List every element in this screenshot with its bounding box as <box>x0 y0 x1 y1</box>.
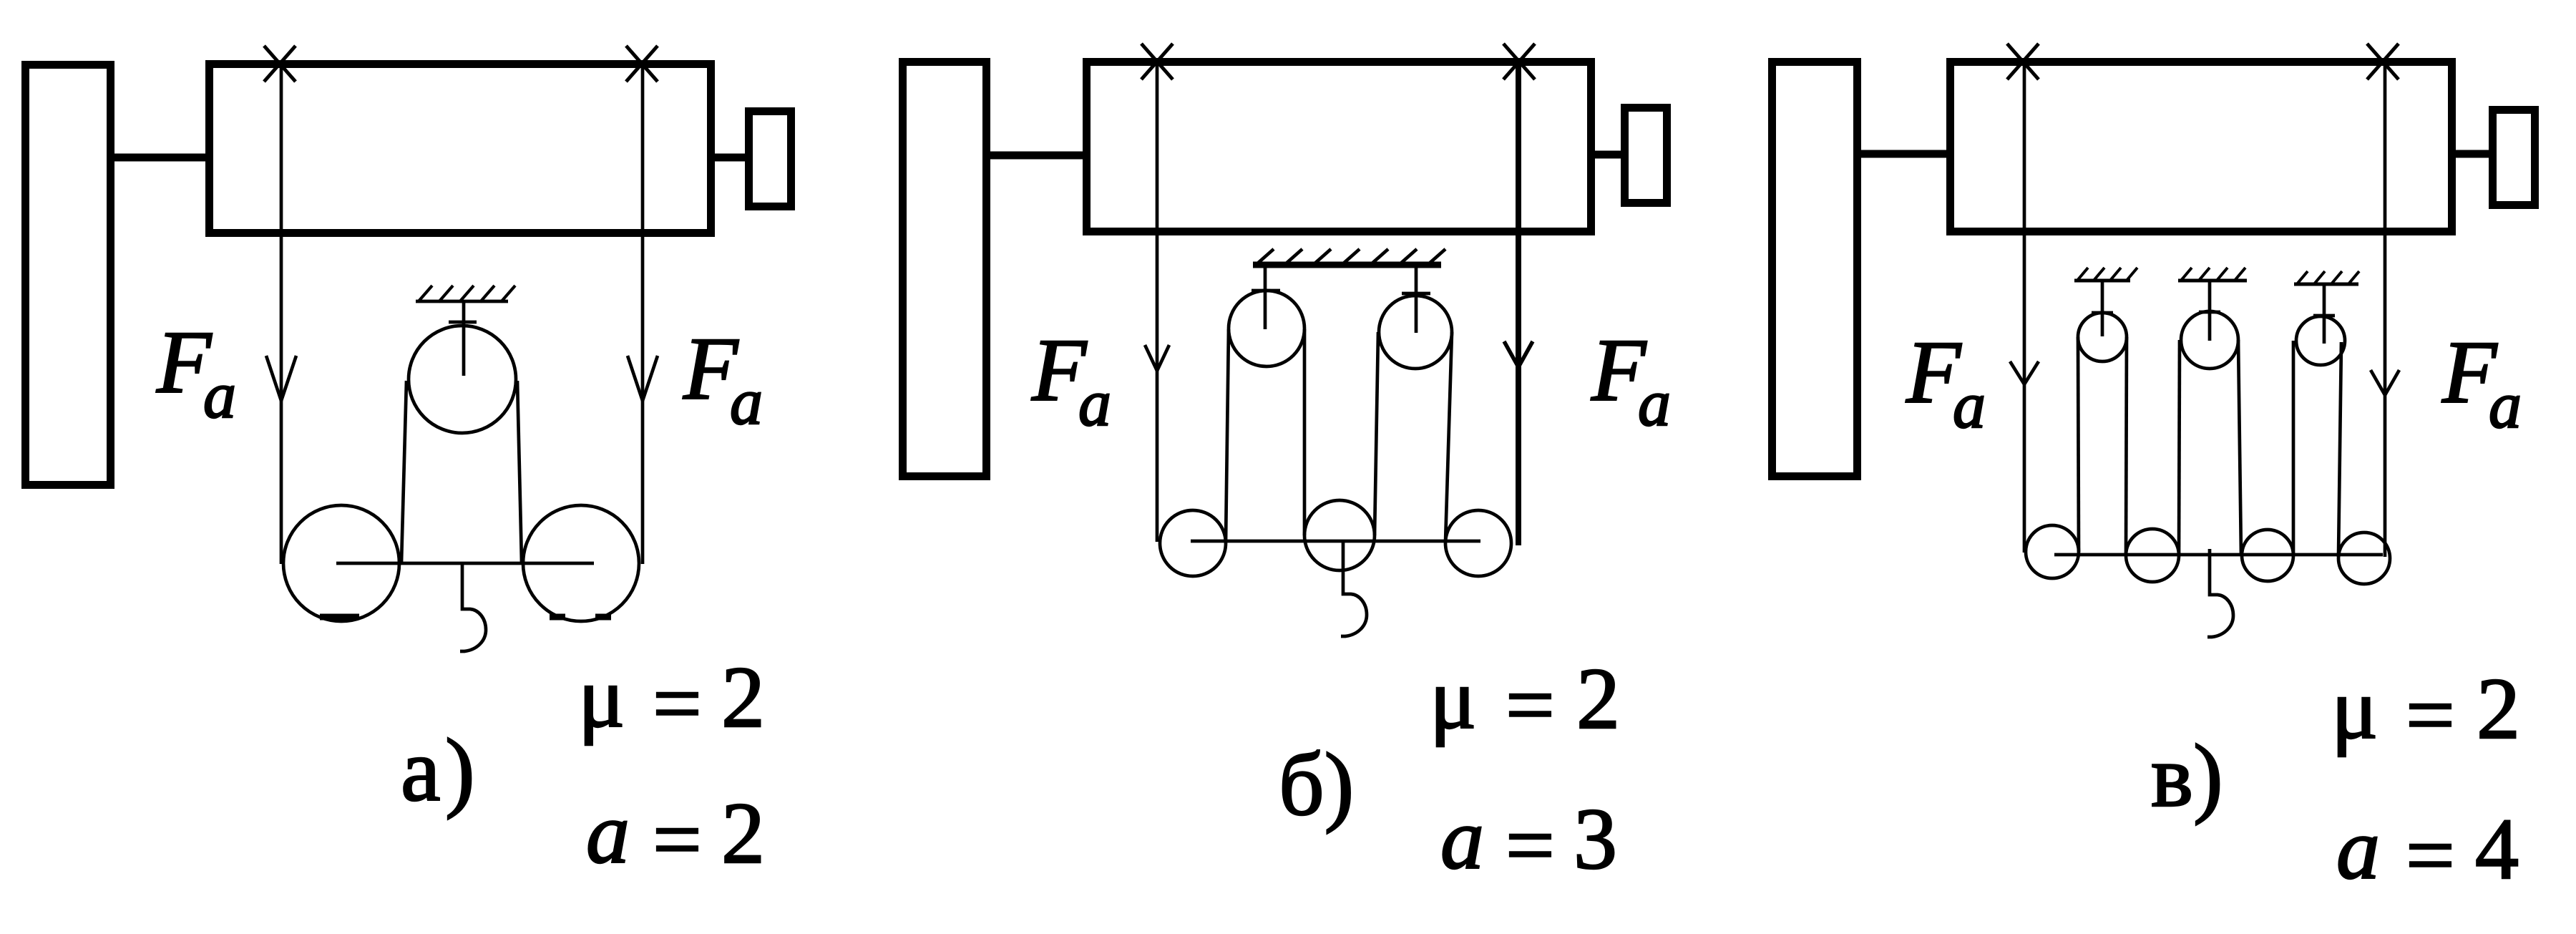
section b: upper pulley hanger right <box>1415 265 1418 333</box>
section v: axle bar 1 <box>2092 311 2113 315</box>
section b: drum axle right <box>1591 151 1624 159</box>
section b: upper pulley left <box>1229 291 1304 366</box>
section a: rope right arrowhead <box>628 356 658 401</box>
section v: rope fall 6 <box>2338 342 2341 557</box>
svg-text:μ: μ <box>2331 661 2378 757</box>
section b: rope anchor X left <box>1141 44 1173 79</box>
section v: ceiling hatch mount 1 <box>2074 268 2137 281</box>
section a: drum axle left <box>111 154 209 162</box>
svg-text:4: 4 <box>2475 801 2519 897</box>
section b: bearing block right <box>1625 108 1667 203</box>
section v: support wall <box>1772 62 1858 477</box>
section v: ceiling hatch mount 3 <box>2294 271 2359 285</box>
section b: drum axle left <box>983 152 1086 160</box>
section a: rope anchor X right <box>626 46 658 82</box>
section v: hanger 1 <box>2101 281 2104 336</box>
svg-text:a: a <box>203 359 236 432</box>
svg-text:a: a <box>730 365 763 438</box>
svg-text:а: а <box>401 721 440 820</box>
section b: support wall <box>903 62 987 477</box>
section a: bearing block right <box>749 112 791 207</box>
svg-text:a: a <box>2489 369 2522 442</box>
svg-text:=: = <box>2406 667 2455 764</box>
section v: rope fall 5 <box>2292 341 2296 555</box>
section b: rope right (thick) <box>1516 65 1521 545</box>
section v: rope anchor X right <box>2367 44 2399 79</box>
section b: winch drum <box>1087 62 1591 232</box>
section b: upper pulley right <box>1379 296 1452 369</box>
section v: rope right arrowhead <box>2371 370 2399 395</box>
section a: rope right <box>641 67 645 564</box>
svg-text:в): в) <box>2151 727 2223 826</box>
section a: lower pulley right <box>523 505 639 621</box>
section a: ceiling hatch <box>416 286 515 302</box>
section v: rope left arrowhead <box>2010 361 2039 384</box>
section b: upper pulley hanger left <box>1264 265 1267 329</box>
section b: upper pulley axle bar left <box>1252 289 1280 293</box>
svg-text:=: = <box>653 792 702 888</box>
section b: upper pulley axle bar right <box>1402 292 1430 296</box>
section a: rope end mark left <box>320 614 359 621</box>
svg-text:a: a <box>1638 366 1671 439</box>
section b: load hook <box>1341 542 1367 636</box>
section b: ceiling hatch <box>1253 249 1445 266</box>
svg-text:2: 2 <box>721 785 765 882</box>
section v: drum axle right <box>2451 150 2492 158</box>
section b: rope fall 3 <box>1375 332 1378 535</box>
section v: upper pulley 1 <box>2078 313 2127 361</box>
section a: winch drum <box>210 64 711 233</box>
svg-text:=: = <box>1506 657 1555 754</box>
section b: rope fall 4 <box>1445 332 1452 543</box>
svg-text:μ: μ <box>578 649 625 746</box>
section v: hanger 2 <box>2208 281 2212 341</box>
section b: rope anchor X right <box>1503 44 1535 79</box>
section v: rope left <box>2023 65 2026 553</box>
section v: lower pulley 2 <box>2126 529 2179 582</box>
section b: lower pulley middle <box>1304 500 1375 570</box>
section v: bearing block right <box>2493 110 2535 205</box>
section b: lower pulley left <box>1160 510 1226 576</box>
section v: load hook <box>2207 549 2233 637</box>
svg-text:=: = <box>653 656 702 752</box>
svg-text:a: a <box>1953 369 1986 442</box>
section b: lower block axle <box>1191 540 1480 543</box>
section b: rope fall 2 <box>1303 329 1307 535</box>
section a: lower pulley left <box>283 505 399 621</box>
section v: winch drum <box>1951 62 2452 232</box>
svg-text:=: = <box>1506 797 1555 894</box>
section v: rope anchor X left <box>2007 44 2039 79</box>
section a: rope anchor X left <box>264 46 296 82</box>
section v: ceiling hatch mount 2 <box>2178 268 2247 281</box>
section v: axle bar 2 <box>2199 311 2220 314</box>
section a: load hook <box>460 565 486 651</box>
svg-text:): ) <box>445 721 475 820</box>
section a: rope left <box>280 67 283 564</box>
section b: rope fall 1 <box>1226 329 1229 543</box>
svg-text:3: 3 <box>1574 791 1617 887</box>
svg-text:2: 2 <box>721 649 765 746</box>
svg-text:a: a <box>2336 801 2380 897</box>
section b: rope left <box>1156 65 1159 542</box>
section a: upper pulley axle bar <box>449 321 477 324</box>
section a: rope end marks right <box>550 614 565 621</box>
svg-text:a: a <box>586 785 630 882</box>
section v: rope fall 1 <box>2078 337 2079 552</box>
svg-text:2: 2 <box>1576 651 1620 747</box>
section v: lower pulley 1 <box>2026 525 2079 578</box>
section v: lower block axle <box>2054 553 2383 557</box>
svg-text:μ: μ <box>1430 651 1476 747</box>
section v: lower pulley 4 <box>2338 532 2390 584</box>
svg-text:=: = <box>2406 807 2455 904</box>
section a: support wall <box>26 65 111 485</box>
section v: rope fall 2 <box>2126 337 2127 555</box>
section v: rope fall 3 <box>2179 340 2180 555</box>
section a: upper pulley hanger <box>462 301 466 376</box>
svg-text:a: a <box>1078 366 1111 439</box>
section v: lower pulley 3 <box>2242 530 2293 581</box>
section v: upper pulley 3 <box>2296 316 2345 365</box>
section v: hanger 3 <box>2323 284 2326 344</box>
section a: upper pulley <box>409 326 516 433</box>
section b: rope right arrowhead <box>1504 341 1533 367</box>
section a: lower block axle <box>336 562 594 565</box>
svg-text:б): б) <box>1279 736 1354 835</box>
section v: rope fall 4 <box>2238 340 2241 555</box>
section b: lower pulley right <box>1445 510 1511 576</box>
section a: rope fall inner left <box>401 381 406 563</box>
section b: rope left arrowhead <box>1145 345 1169 371</box>
section a: drum axle right <box>711 154 748 162</box>
section v: drum axle left <box>1854 150 1951 158</box>
svg-text:a: a <box>1440 791 1484 887</box>
section v: rope right <box>2384 65 2387 557</box>
section v: upper pulley 2 <box>2181 311 2238 369</box>
section v: axle bar 3 <box>2313 314 2335 318</box>
section a: rope left arrowhead <box>266 356 296 401</box>
svg-text:2: 2 <box>2477 661 2520 757</box>
section a: rope fall inner right <box>517 381 522 563</box>
